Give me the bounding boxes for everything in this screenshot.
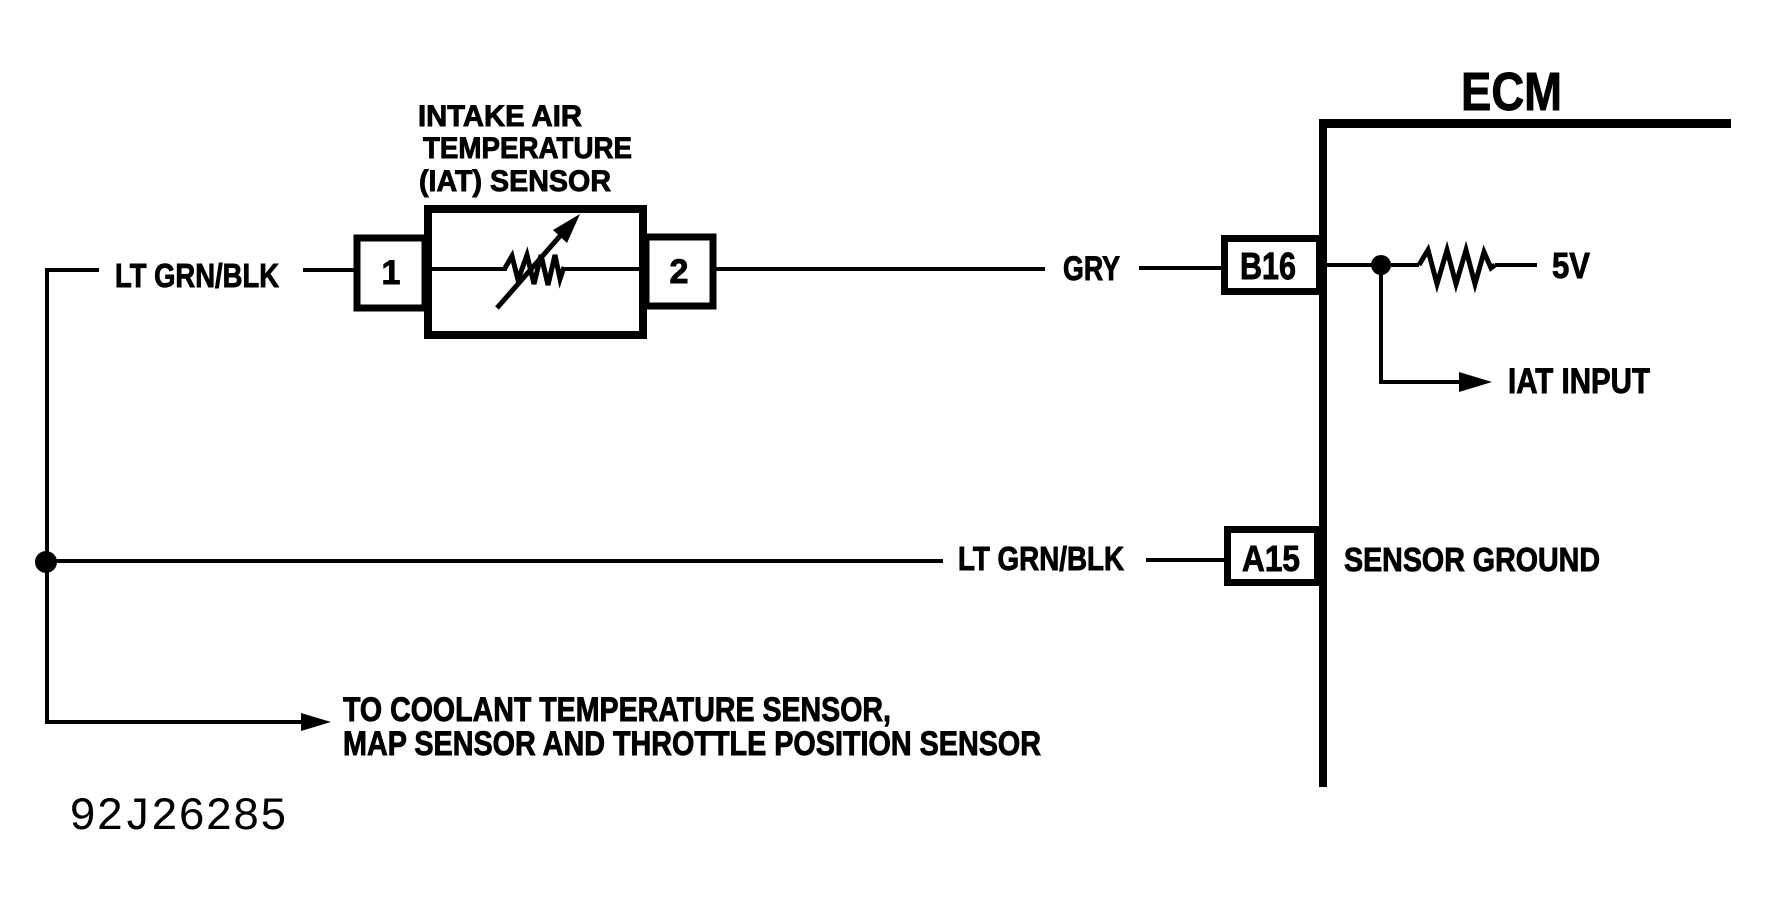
svg-text:92J26285: 92J26285 [69, 791, 287, 843]
svg-text:ECM: ECM [1461, 62, 1562, 122]
svg-text:5V: 5V [1552, 245, 1590, 286]
svg-text:TEMPERATURE: TEMPERATURE [423, 132, 632, 165]
svg-text:GRY: GRY [1063, 250, 1120, 288]
svg-text:LT GRN/BLK: LT GRN/BLK [958, 540, 1124, 577]
svg-text:(IAT) SENSOR: (IAT) SENSOR [419, 165, 611, 198]
svg-text:SENSOR GROUND: SENSOR GROUND [1344, 541, 1600, 578]
svg-text:INTAKE AIR: INTAKE AIR [418, 100, 582, 133]
svg-text:IAT INPUT: IAT INPUT [1508, 362, 1650, 401]
svg-text:LT GRN/BLK: LT GRN/BLK [115, 257, 279, 294]
svg-text:B16: B16 [1240, 246, 1296, 288]
svg-text:TO COOLANT TEMPERATURE SENSOR,: TO COOLANT TEMPERATURE SENSOR, [343, 691, 891, 729]
svg-text:1: 1 [382, 254, 401, 292]
svg-text:2: 2 [670, 253, 689, 291]
svg-text:MAP SENSOR AND THROTTLE POSITI: MAP SENSOR AND THROTTLE POSITION SENSOR [343, 725, 1041, 763]
svg-text:A15: A15 [1242, 538, 1300, 579]
